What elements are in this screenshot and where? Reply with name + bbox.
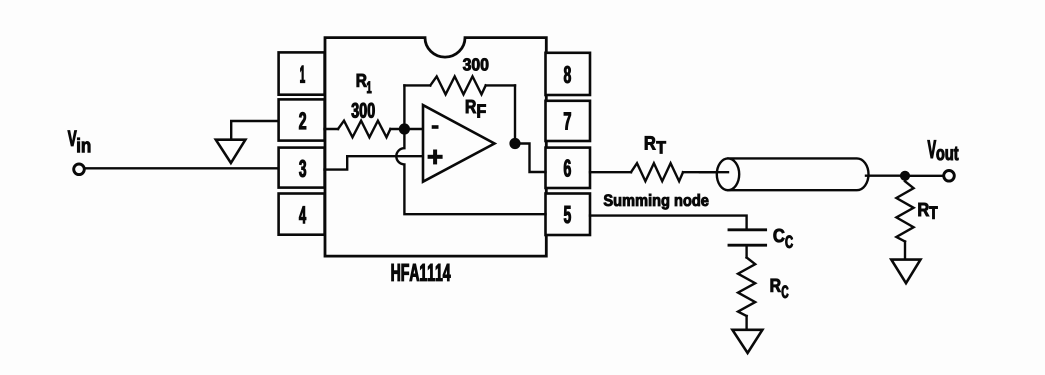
op-amp minus sign: [432, 125, 439, 129]
pin box 5: [546, 194, 591, 236]
op-amp plus sign: [428, 155, 443, 159]
pin box 8: [546, 53, 591, 95]
pin 1 number: [300, 66, 304, 83]
label R1 value 300: [352, 103, 375, 118]
wire feedback down to output: [514, 85, 516, 143]
label Vin in subscript: [77, 138, 90, 153]
wire RC to ground: [745, 316, 747, 330]
pin 8 number: [564, 66, 571, 83]
label RC R: [771, 279, 781, 292]
pin 6 number: [564, 160, 571, 177]
pin box 4: [279, 194, 325, 235]
op-amp U1 triangle: [423, 105, 495, 182]
pin 3 number: [299, 160, 306, 177]
label RT shunt subscript T: [930, 207, 938, 219]
resistor RF 300 feedback: [430, 76, 485, 94]
label Summing node: [604, 194, 709, 209]
label CC subscript C: [786, 236, 793, 249]
resistor RT shunt: [896, 181, 913, 241]
wire junction to Vout terminal: [905, 175, 943, 177]
pin 4 number: [299, 206, 306, 223]
coax cable body: [728, 158, 869, 190]
label RF subscript F: [478, 105, 486, 118]
wire R1 to summing node: [390, 128, 404, 130]
wire Vin to pin 3: [85, 167, 279, 169]
wire pin 6 to RT: [590, 171, 631, 173]
wire pin 2 to R1: [325, 128, 339, 130]
resistor RT series: [631, 163, 683, 181]
IC body HFA1114 with notch: [325, 38, 546, 257]
label RF R: [466, 100, 476, 113]
label RC subscript C: [782, 286, 789, 299]
pin 5 number: [564, 206, 571, 223]
label Vin V: [68, 131, 77, 146]
wire node to inverting input: [404, 128, 423, 130]
capacitor CC bottom plate: [729, 244, 766, 247]
terminal Vin: [74, 164, 85, 175]
ground GND2 below RC: [732, 330, 762, 353]
terminal Vout: [944, 171, 955, 182]
wire output to pin 6: [515, 144, 546, 173]
wire RT to coax: [683, 171, 728, 173]
node summing junction dot: [399, 123, 410, 134]
wire CC to RC: [745, 245, 747, 257]
pin box 1: [279, 52, 325, 94]
pin 7 number: [564, 113, 571, 130]
label Vout V: [928, 140, 936, 158]
label CC C: [774, 229, 785, 242]
label R1 subscript 1: [367, 82, 371, 94]
pin 2 number: [299, 112, 306, 129]
wire stub into coax center: [700, 171, 728, 173]
wire coax to output junction: [866, 174, 905, 176]
label RT series R: [645, 136, 656, 149]
pin box 7: [546, 101, 591, 141]
node Vout junction dot: [900, 171, 910, 181]
label RT series subscript T: [657, 141, 666, 153]
pin box 3: [279, 148, 325, 188]
capacitor CC top plate: [729, 228, 766, 231]
wire pin 5 to CC: [590, 216, 747, 230]
label R1 R: [357, 74, 367, 87]
node output junction dot: [509, 138, 520, 149]
label HFA1114: [392, 264, 451, 281]
resistor RC: [738, 258, 755, 317]
wire pin 3 to non-inverting input: [325, 156, 424, 169]
wire RT shunt to ground: [904, 242, 906, 260]
pin box 6: [546, 148, 591, 188]
wire feedback top left: [404, 84, 430, 86]
ground GND1 near pin 2: [216, 140, 246, 163]
resistor R1 300: [338, 121, 390, 138]
wire feedback up: [403, 85, 405, 129]
wire pin 2 to ground: [231, 121, 279, 140]
wire summing node down to pin 5 with crossover hop: [396, 129, 545, 214]
pin box 2: [279, 99, 325, 140]
coax cable left end ellipse: [717, 158, 739, 190]
label Vout out subscript: [937, 147, 959, 160]
wire feedback top right: [486, 84, 515, 86]
label RF value 300: [463, 58, 488, 70]
ground GND3 below RT shunt: [891, 260, 920, 284]
label RT shunt R: [919, 203, 930, 216]
